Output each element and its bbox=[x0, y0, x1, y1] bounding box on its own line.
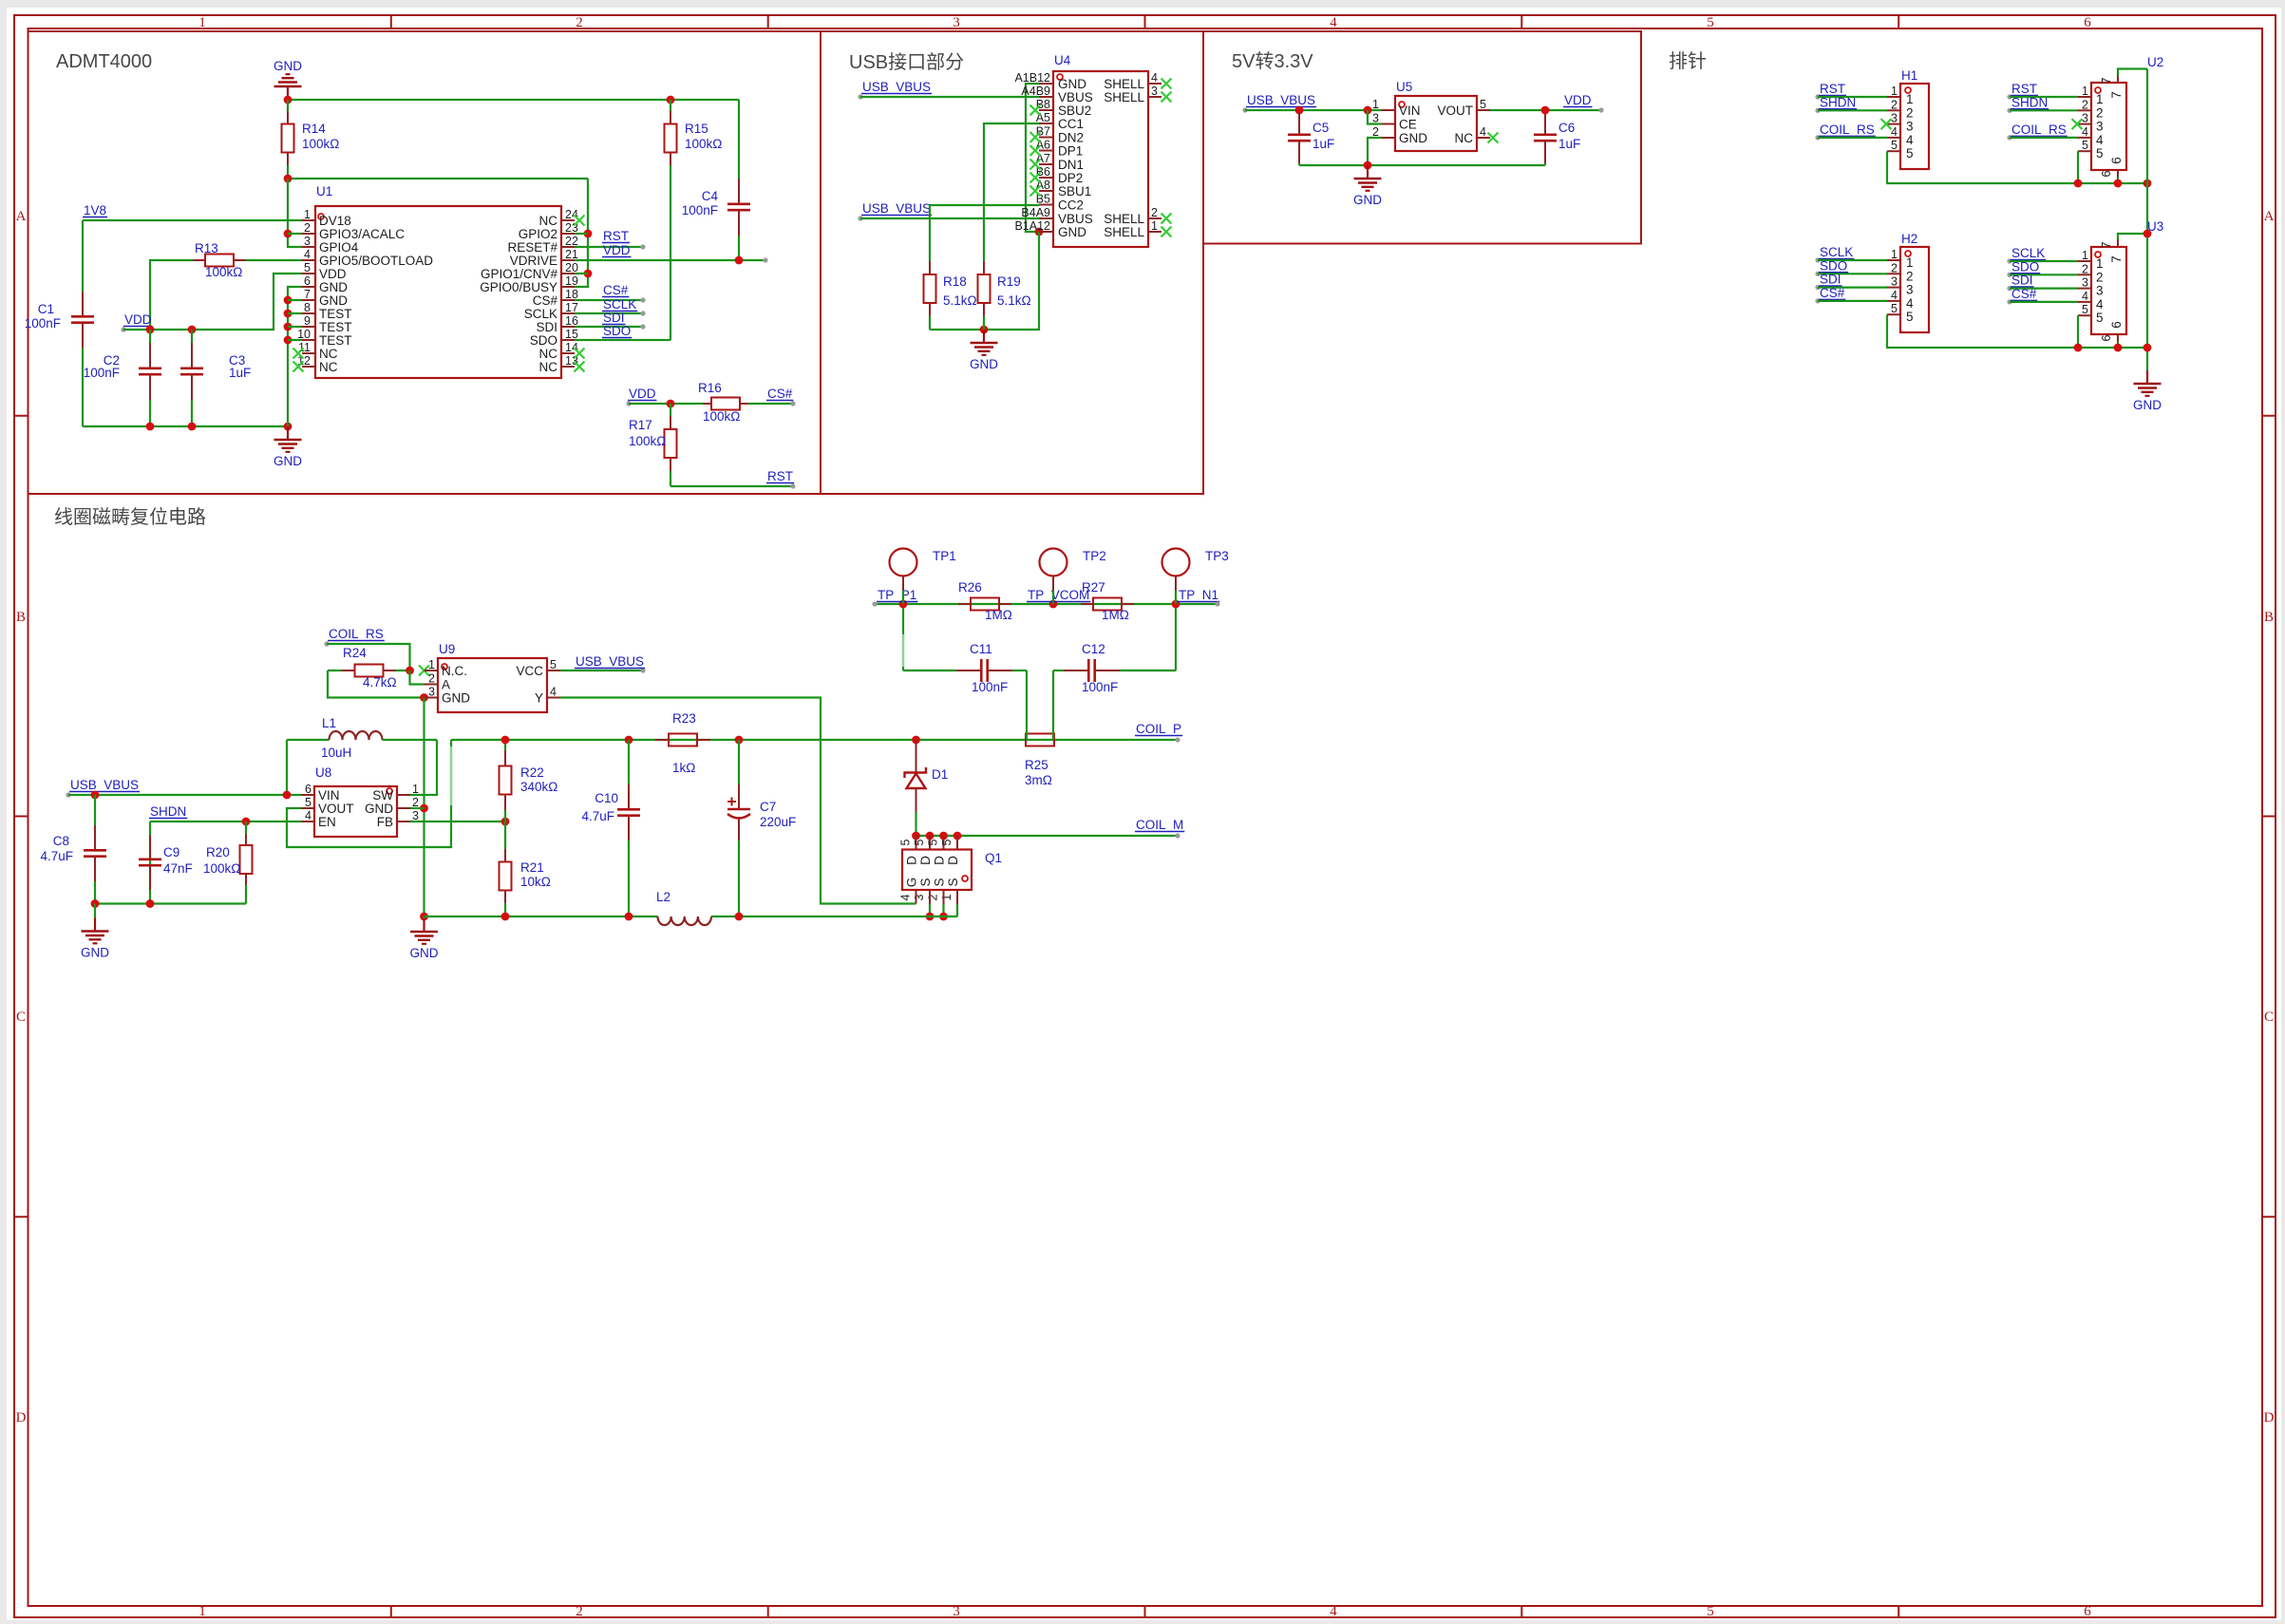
junction R22 top bbox=[501, 736, 510, 745]
junction pin8 bbox=[284, 310, 293, 318]
capacitor C4 bbox=[727, 100, 750, 260]
label L1 bbox=[321, 716, 351, 760]
svg-text:1MΩ: 1MΩ bbox=[985, 608, 1012, 622]
svg-text:5.1kΩ: 5.1kΩ bbox=[943, 293, 977, 308]
svg-text:C: C bbox=[2264, 1010, 2274, 1025]
svg-text:5: 5 bbox=[550, 658, 557, 671]
label R19 bbox=[997, 274, 1031, 308]
svg-text:SHDN: SHDN bbox=[1820, 95, 1856, 109]
svg-text:C10: C10 bbox=[595, 791, 618, 805]
junction coil gnd rail bbox=[420, 913, 428, 921]
wire CC1 to R19 bbox=[984, 123, 1039, 261]
svg-text:GPIO4: GPIO4 bbox=[319, 240, 359, 255]
wire Q1 drain stub x964 bbox=[916, 836, 917, 850]
svg-text:GND: GND bbox=[1353, 193, 1382, 207]
svg-text:SHELL: SHELL bbox=[1104, 225, 1144, 239]
svg-text:4: 4 bbox=[305, 809, 312, 822]
svg-text:NC: NC bbox=[539, 214, 558, 228]
svg-text:10kΩ: 10kΩ bbox=[520, 875, 551, 889]
junction C10 bottom bbox=[625, 913, 633, 921]
svg-text:SDI: SDI bbox=[2011, 274, 2033, 288]
svg-text:5: 5 bbox=[1480, 98, 1486, 111]
svg-text:3: 3 bbox=[2096, 120, 2104, 134]
net label COIL_P bbox=[1135, 722, 1182, 743]
capacitor C6 bbox=[1534, 110, 1557, 165]
svg-text:U2: U2 bbox=[2147, 55, 2163, 69]
junction C9 bottom bbox=[146, 899, 155, 908]
svg-text:GND: GND bbox=[319, 280, 348, 294]
net label SCLK U3 bbox=[2007, 246, 2078, 264]
label C10 bbox=[581, 791, 618, 823]
svg-text:100kΩ: 100kΩ bbox=[203, 861, 240, 876]
svg-text:3: 3 bbox=[304, 235, 311, 248]
svg-text:TP2: TP2 bbox=[1083, 549, 1106, 563]
svg-text:10: 10 bbox=[297, 328, 311, 341]
svg-text:4: 4 bbox=[1330, 15, 1337, 30]
svg-text:1: 1 bbox=[1151, 219, 1158, 233]
svg-text:7: 7 bbox=[304, 288, 311, 301]
label U1 bbox=[316, 184, 332, 198]
wire COIL_M line bbox=[916, 835, 1179, 837]
wire U1 gnd pins vertical bbox=[288, 287, 302, 426]
svg-text:TP3: TP3 bbox=[1205, 549, 1229, 563]
junction L1/VIN bbox=[283, 791, 292, 800]
svg-text:D: D bbox=[918, 856, 933, 865]
svg-text:U4: U4 bbox=[1054, 53, 1071, 67]
IC U9 bbox=[425, 658, 561, 712]
svg-text:CE: CE bbox=[1399, 118, 1417, 132]
svg-text:4: 4 bbox=[2082, 125, 2088, 139]
svg-text:排针: 排针 bbox=[1669, 50, 1707, 72]
wire testpoint row bbox=[875, 603, 1218, 605]
net label TP_N1 bbox=[1178, 588, 1220, 607]
net label COIL_RS H1 bbox=[1815, 123, 1887, 141]
svg-text:B4A9: B4A9 bbox=[1021, 206, 1050, 219]
connector U4 USB bbox=[1014, 71, 1161, 247]
resistor R21 bbox=[500, 821, 512, 916]
label R22 bbox=[520, 765, 557, 794]
svg-text:R18: R18 bbox=[943, 274, 967, 289]
svg-text:1kΩ: 1kΩ bbox=[672, 761, 695, 775]
capacitor C2 bbox=[139, 330, 161, 426]
resistor R26 inline bbox=[958, 598, 1011, 611]
svg-text:2: 2 bbox=[2096, 270, 2104, 284]
svg-text:5: 5 bbox=[2082, 139, 2088, 152]
title ADMT4000 bbox=[56, 51, 152, 72]
resistor R13 bbox=[193, 255, 246, 267]
svg-text:VDD: VDD bbox=[629, 387, 656, 401]
no-connect X U4 DN1 bbox=[1030, 160, 1041, 170]
svg-text:3: 3 bbox=[1906, 283, 1914, 297]
wire pin7 bbox=[288, 299, 302, 301]
section box USB bbox=[821, 31, 1203, 494]
label R17 bbox=[629, 418, 666, 448]
svg-text:DN1: DN1 bbox=[1058, 158, 1084, 172]
capacitor C7 polarized bbox=[727, 740, 750, 916]
svg-text:5: 5 bbox=[2082, 303, 2088, 316]
ground GND coil mid bbox=[410, 916, 439, 960]
junction C10 top bbox=[625, 736, 633, 745]
wire left gnd rail bbox=[95, 902, 246, 904]
svg-text:B: B bbox=[2264, 610, 2274, 625]
svg-text:100nF: 100nF bbox=[972, 680, 1008, 694]
diode D1 zener bbox=[905, 740, 927, 836]
svg-text:CS#: CS# bbox=[1820, 286, 1845, 300]
svg-text:2: 2 bbox=[1891, 261, 1898, 274]
svg-text:GND: GND bbox=[442, 691, 470, 706]
no-connect X U5 NC bbox=[1488, 133, 1499, 143]
junction C5 top bbox=[1295, 106, 1304, 115]
net label USB_VBUS U9 bbox=[560, 654, 646, 673]
svg-text:GND: GND bbox=[1399, 131, 1427, 145]
svg-text:VBUS: VBUS bbox=[1058, 90, 1093, 104]
svg-text:SHELL: SHELL bbox=[1104, 90, 1144, 104]
svg-text:4: 4 bbox=[550, 686, 557, 699]
svg-text:COIL_M: COIL_M bbox=[1136, 818, 1183, 832]
junction Q1 drain x993 bbox=[939, 832, 948, 840]
svg-text:USB接口部分: USB接口部分 bbox=[849, 51, 964, 73]
svg-text:6: 6 bbox=[2100, 170, 2113, 177]
svg-text:SDO: SDO bbox=[530, 333, 557, 348]
svg-text:DP2: DP2 bbox=[1058, 171, 1083, 185]
wire VOUT to VDD bbox=[1490, 109, 1601, 111]
svg-text:2: 2 bbox=[2096, 105, 2104, 120]
inductor L2 bbox=[658, 916, 712, 925]
no-connect X U4 SBU2 bbox=[1030, 105, 1041, 116]
net label SHDN H1 bbox=[1815, 95, 1887, 113]
capacitor C8 bbox=[84, 795, 106, 904]
no-connect X U2 pin3 bbox=[2072, 119, 2083, 129]
svg-text:2: 2 bbox=[2082, 262, 2088, 275]
svg-text:1: 1 bbox=[198, 15, 206, 30]
svg-text:TP_VCOM: TP_VCOM bbox=[1028, 588, 1089, 602]
svg-text:L2: L2 bbox=[656, 890, 670, 904]
svg-text:C12: C12 bbox=[1082, 642, 1105, 656]
svg-text:R14: R14 bbox=[302, 122, 326, 136]
junction U2 pin6 bbox=[2114, 179, 2123, 188]
junction R18/R19 GND bbox=[980, 326, 989, 334]
no-connect X U4 SHELL1 bbox=[1161, 227, 1172, 237]
svg-text:U1: U1 bbox=[316, 184, 332, 198]
svg-text:4: 4 bbox=[1906, 133, 1914, 147]
wire pin8 bbox=[288, 312, 302, 314]
wire VOUT riser highlight bbox=[450, 746, 452, 805]
svg-text:5: 5 bbox=[913, 839, 926, 845]
wire coil gnd rail right bbox=[711, 916, 957, 917]
wire R14 to pins 2,3 bbox=[288, 179, 302, 247]
svg-text:VDD: VDD bbox=[1564, 93, 1592, 107]
junction pin7 bbox=[284, 296, 293, 305]
label C4 bbox=[682, 189, 719, 217]
junction pin10 bbox=[284, 336, 293, 345]
net label SCLK H2 bbox=[1815, 245, 1887, 263]
svg-text:COIL_RS: COIL_RS bbox=[2011, 123, 2067, 137]
svg-text:COIL_RS: COIL_RS bbox=[1820, 123, 1875, 137]
svg-text:6: 6 bbox=[2109, 321, 2124, 329]
no-connect X U4 SHELL3 bbox=[1161, 92, 1172, 103]
junction C3 bottom bbox=[188, 423, 197, 431]
svg-text:1: 1 bbox=[304, 208, 311, 221]
svg-text:1MΩ: 1MΩ bbox=[1102, 608, 1129, 622]
wire CC2 to R18 bbox=[930, 205, 1039, 261]
svg-text:DV18: DV18 bbox=[319, 214, 351, 228]
junction U3 pin7 bbox=[2143, 230, 2152, 238]
svg-text:4: 4 bbox=[1330, 1604, 1337, 1619]
test point TP2 bbox=[1040, 549, 1106, 605]
svg-text:TP_P1: TP_P1 bbox=[878, 588, 916, 602]
svg-text:SHELL: SHELL bbox=[1104, 77, 1144, 91]
svg-text:SHDN: SHDN bbox=[2011, 95, 2048, 109]
wire R13 to pin4 bbox=[246, 259, 302, 261]
capacitor C10 bbox=[617, 740, 640, 916]
ground GND USB bbox=[970, 330, 998, 371]
svg-text:NC: NC bbox=[539, 360, 558, 374]
svg-text:NC: NC bbox=[319, 360, 338, 374]
junction C4 bottom bbox=[735, 256, 744, 265]
svg-text:GND: GND bbox=[274, 454, 302, 468]
svg-text:5: 5 bbox=[1707, 15, 1714, 30]
wire Q1 source stubs bbox=[930, 890, 957, 916]
svg-text:19: 19 bbox=[565, 274, 578, 288]
svg-text:RESET#: RESET# bbox=[507, 240, 557, 255]
no-connect X U4 DP1 bbox=[1030, 145, 1041, 156]
svg-text:U8: U8 bbox=[315, 765, 331, 780]
resistor R25 inline bbox=[1026, 734, 1054, 746]
label U8 bbox=[315, 765, 331, 780]
capacitor C12 bbox=[1053, 659, 1176, 682]
wire U2 pin5 drop bbox=[2077, 151, 2079, 183]
junction Q1 S1 bbox=[939, 913, 948, 921]
svg-text:COIL_RS: COIL_RS bbox=[329, 627, 384, 641]
svg-text:2: 2 bbox=[1151, 206, 1158, 219]
svg-text:1: 1 bbox=[940, 894, 954, 900]
svg-text:VOUT: VOUT bbox=[1437, 104, 1473, 118]
label U4 bbox=[1054, 53, 1071, 67]
net label RST U2 bbox=[2007, 82, 2078, 100]
svg-text:R27: R27 bbox=[1082, 580, 1105, 595]
junction C6 top bbox=[1541, 106, 1550, 115]
svg-text:C8: C8 bbox=[53, 834, 69, 848]
svg-text:GND: GND bbox=[2133, 398, 2162, 412]
svg-text:100kΩ: 100kΩ bbox=[205, 265, 242, 279]
svg-text:Y: Y bbox=[535, 691, 543, 706]
svg-text:4: 4 bbox=[1480, 125, 1486, 139]
junction C8 bottom bbox=[91, 899, 100, 908]
wire H2 pin5 to rail bbox=[1887, 314, 2147, 348]
svg-text:6: 6 bbox=[2084, 15, 2091, 30]
net label VDD left bbox=[121, 312, 152, 332]
resistor R16 bbox=[703, 398, 748, 410]
svg-text:1: 1 bbox=[2082, 249, 2088, 262]
wire U4 GND top loop bbox=[1026, 84, 1039, 232]
svg-text:1uF: 1uF bbox=[1312, 137, 1334, 151]
svg-text:CC2: CC2 bbox=[1058, 198, 1084, 213]
svg-text:USB_VBUS: USB_VBUS bbox=[70, 778, 139, 792]
svg-text:5: 5 bbox=[1906, 146, 1914, 161]
svg-text:6: 6 bbox=[2084, 1604, 2091, 1619]
svg-text:CS#: CS# bbox=[767, 387, 793, 401]
junction C2 bottom bbox=[146, 423, 155, 431]
net label COIL_RS bbox=[324, 627, 384, 647]
svg-text:5: 5 bbox=[305, 796, 312, 809]
wire Q1 drain stub x1008 bbox=[956, 836, 958, 850]
ground GND top bbox=[274, 59, 302, 100]
section box 5V to 3.3V bbox=[1203, 31, 1641, 244]
label R15 bbox=[685, 122, 722, 151]
svg-text:U5: U5 bbox=[1396, 80, 1412, 94]
label R16 bbox=[698, 381, 740, 424]
net label COIL_M bbox=[1135, 818, 1184, 839]
net label SDO U3 bbox=[2007, 259, 2078, 277]
junction Q1 drain x979 bbox=[926, 832, 935, 840]
svg-text:100kΩ: 100kΩ bbox=[703, 409, 740, 424]
svg-text:SHELL: SHELL bbox=[1104, 212, 1144, 226]
svg-text:R16: R16 bbox=[698, 381, 722, 395]
capacitor C1 on 1V8 branch bbox=[71, 220, 94, 426]
svg-text:A1B12: A1B12 bbox=[1014, 71, 1050, 85]
svg-text:47nF: 47nF bbox=[163, 861, 193, 876]
svg-text:2: 2 bbox=[1906, 269, 1914, 283]
net label USB_VBUS top bbox=[858, 80, 932, 100]
IC U5 regulator bbox=[1372, 96, 1490, 151]
svg-text:2: 2 bbox=[576, 15, 583, 30]
svg-text:A: A bbox=[442, 678, 450, 692]
no-connect X H1 pin3 bbox=[1881, 119, 1892, 129]
wire TP1 drop bbox=[902, 604, 904, 670]
resistor R17 bbox=[665, 404, 677, 486]
svg-text:R21: R21 bbox=[520, 860, 544, 875]
svg-text:GPIO0/BUSY: GPIO0/BUSY bbox=[480, 280, 557, 294]
svg-text:2: 2 bbox=[576, 1604, 583, 1619]
svg-text:线圈磁畴复位电路: 线圈磁畴复位电路 bbox=[54, 506, 206, 528]
svg-text:B1A12: B1A12 bbox=[1014, 219, 1050, 233]
svg-text:5: 5 bbox=[2096, 146, 2104, 161]
wire U4 GND down bbox=[930, 232, 1039, 330]
svg-text:1: 1 bbox=[2082, 85, 2088, 98]
svg-text:SCLK: SCLK bbox=[524, 307, 557, 321]
svg-text:RST: RST bbox=[1820, 82, 1845, 96]
wire SHDN down to C9 bbox=[149, 821, 151, 904]
svg-text:1: 1 bbox=[2096, 92, 2104, 106]
junction TP1 bbox=[899, 600, 908, 609]
label C5 bbox=[1312, 121, 1334, 151]
svg-text:GND: GND bbox=[1058, 77, 1086, 91]
junction R14 bottom bbox=[284, 175, 293, 183]
svg-text:7: 7 bbox=[2109, 255, 2124, 263]
svg-text:SDO: SDO bbox=[603, 324, 631, 338]
junction C3 top bbox=[188, 326, 197, 334]
svg-text:5: 5 bbox=[304, 261, 311, 274]
junction TP2 bbox=[1049, 600, 1058, 609]
svg-text:9: 9 bbox=[304, 314, 311, 328]
IC U8 boost converter bbox=[301, 783, 419, 837]
svg-text:4: 4 bbox=[1891, 289, 1898, 302]
svg-text:5: 5 bbox=[1707, 1604, 1714, 1619]
svg-text:TP_N1: TP_N1 bbox=[1179, 588, 1218, 602]
svg-text:S: S bbox=[918, 878, 933, 886]
svg-text:A4B9: A4B9 bbox=[1021, 85, 1050, 98]
svg-text:2: 2 bbox=[412, 796, 419, 809]
junction 5V GND bbox=[1364, 161, 1372, 170]
svg-text:3: 3 bbox=[953, 15, 960, 30]
svg-text:S: S bbox=[933, 878, 947, 886]
label C1 bbox=[25, 302, 61, 330]
junction U9 GND pin bbox=[420, 693, 428, 702]
junction C7 top bbox=[735, 736, 744, 745]
svg-text:1: 1 bbox=[1891, 248, 1898, 261]
svg-text:100nF: 100nF bbox=[1082, 680, 1118, 694]
svg-text:D: D bbox=[946, 856, 960, 865]
svg-text:EN: EN bbox=[318, 815, 336, 829]
svg-text:3: 3 bbox=[1891, 275, 1898, 289]
junction pin23 bbox=[584, 230, 593, 238]
label C9 bbox=[163, 845, 193, 876]
svg-text:4: 4 bbox=[2096, 297, 2104, 312]
svg-text:100nF: 100nF bbox=[682, 203, 718, 217]
svg-text:GND: GND bbox=[1058, 225, 1086, 239]
svg-text:340kΩ: 340kΩ bbox=[520, 780, 557, 794]
wire R24 left loop to U9 GND bbox=[328, 670, 425, 698]
wire pin9 bbox=[288, 326, 302, 328]
net label RST right bbox=[766, 469, 794, 483]
svg-text:R19: R19 bbox=[997, 274, 1021, 289]
svg-text:B7: B7 bbox=[1036, 125, 1050, 139]
svg-text:H2: H2 bbox=[1901, 232, 1917, 246]
net label 1V8 bbox=[83, 203, 107, 217]
wire R24 to U9 pin2 bbox=[410, 670, 425, 685]
label R13 bbox=[195, 241, 242, 279]
svg-text:7: 7 bbox=[2109, 91, 2124, 99]
net label SHDN bbox=[149, 804, 187, 819]
junction rail bottom right bbox=[2143, 344, 2152, 352]
wire TP1 drop highlight bbox=[902, 634, 904, 667]
label Q1 bbox=[985, 851, 1002, 865]
svg-text:R24: R24 bbox=[343, 646, 367, 660]
svg-text:C9: C9 bbox=[163, 845, 179, 859]
svg-text:7: 7 bbox=[2100, 241, 2113, 248]
svg-text:CC1: CC1 bbox=[1058, 117, 1084, 131]
wire C11 drop bbox=[1026, 670, 1028, 740]
svg-text:4: 4 bbox=[1151, 71, 1158, 85]
wire Q1 drain stub x979 bbox=[929, 836, 931, 850]
wire pin10 bbox=[288, 339, 302, 341]
svg-text:5: 5 bbox=[899, 839, 913, 845]
resistor R15 bbox=[665, 100, 677, 340]
svg-text:2: 2 bbox=[428, 672, 435, 686]
svg-text:RST: RST bbox=[603, 229, 629, 243]
no-connect X U4 DN2 bbox=[1030, 132, 1041, 142]
net label SDI H2 bbox=[1815, 273, 1887, 291]
svg-text:2: 2 bbox=[1372, 125, 1379, 139]
svg-text:VDD: VDD bbox=[319, 267, 347, 281]
label R23 bbox=[672, 711, 696, 775]
svg-text:2: 2 bbox=[1891, 98, 1898, 111]
inductor L1 bbox=[287, 731, 437, 740]
svg-text:3: 3 bbox=[1891, 112, 1898, 125]
svg-text:A: A bbox=[16, 209, 27, 224]
svg-text:DN2: DN2 bbox=[1058, 131, 1084, 145]
wire R16 to CS# bbox=[748, 401, 796, 406]
svg-text:NC: NC bbox=[539, 347, 558, 361]
net label SHDN U2 bbox=[2007, 95, 2078, 113]
svg-text:3: 3 bbox=[2082, 276, 2088, 290]
junction GND bottom bbox=[284, 423, 293, 431]
svg-text:3: 3 bbox=[953, 1604, 960, 1619]
svg-text:VIN: VIN bbox=[1399, 104, 1421, 118]
resistor R24 bbox=[328, 665, 410, 677]
svg-text:GND: GND bbox=[410, 946, 439, 960]
svg-text:4.7kΩ: 4.7kΩ bbox=[363, 675, 397, 689]
